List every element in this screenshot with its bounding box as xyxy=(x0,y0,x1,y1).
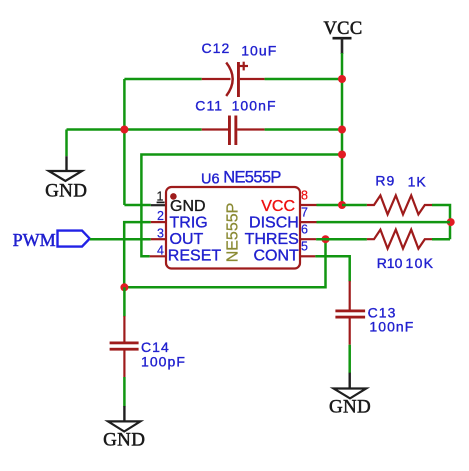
svg-text:THRES: THRES xyxy=(245,231,299,248)
svg-text:100nF: 100nF xyxy=(369,319,414,335)
wire pin1 row xyxy=(124,204,150,207)
junction DISCH xyxy=(447,218,455,226)
junction C11 xyxy=(338,126,346,134)
svg-text:8: 8 xyxy=(301,188,308,202)
wire CONT to C13 xyxy=(315,256,349,281)
svg-text:R9: R9 xyxy=(375,172,395,188)
node PWM flag xyxy=(58,231,90,247)
wire THRES row xyxy=(316,238,367,241)
junction TRIG/C14 xyxy=(120,283,128,291)
svg-text:VCC: VCC xyxy=(324,19,363,39)
svg-text:4: 4 xyxy=(157,243,164,257)
svg-text:10K: 10K xyxy=(406,255,435,271)
svg-text:3: 3 xyxy=(157,226,164,240)
svg-text:100pF: 100pF xyxy=(141,353,186,369)
svg-text:2: 2 xyxy=(157,209,164,223)
wire C11 row right xyxy=(265,128,342,131)
junction VCC/R9 xyxy=(338,201,346,209)
svg-text:7: 7 xyxy=(301,206,308,220)
svg-text:R10: R10 xyxy=(377,255,403,271)
capacitor C13 xyxy=(335,281,365,345)
junction RESET link xyxy=(338,151,346,159)
pin 4 stub xyxy=(150,255,166,257)
wire C14 bottom xyxy=(123,377,126,407)
svg-text:C11: C11 xyxy=(195,98,223,114)
svg-text:DISCH: DISCH xyxy=(249,214,299,231)
pin 5 stub xyxy=(300,255,315,257)
junction C12 xyxy=(338,75,346,83)
svg-text:1K: 1K xyxy=(408,173,427,189)
wire C11 row left xyxy=(67,128,202,131)
svg-text:100nF: 100nF xyxy=(232,98,277,114)
wire VCC to RESET xyxy=(141,155,342,257)
svg-text:NE555P: NE555P xyxy=(223,169,281,187)
svg-text:6: 6 xyxy=(301,223,308,237)
pin 6 stub xyxy=(300,238,316,240)
ground top-left xyxy=(45,156,87,201)
svg-text:C12: C12 xyxy=(202,40,231,56)
junction GND/C11 xyxy=(120,126,128,134)
svg-text:1: 1 xyxy=(157,189,164,203)
svg-text:GND: GND xyxy=(103,429,145,450)
wire C12 row right xyxy=(265,78,342,81)
wire VCC vertical xyxy=(341,53,344,205)
svg-text:PWM: PWM xyxy=(13,230,56,250)
pin 3 stub xyxy=(151,238,166,240)
svg-text:VCC: VCC xyxy=(261,198,295,215)
svg-text:GND: GND xyxy=(45,180,87,201)
wire GND drop top-left xyxy=(65,130,68,157)
svg-text:10uF: 10uF xyxy=(241,42,277,58)
svg-text:GND: GND xyxy=(170,198,206,215)
wire C13 bottom xyxy=(348,345,351,374)
svg-text:TRIG: TRIG xyxy=(170,214,208,231)
svg-text:5: 5 xyxy=(301,240,308,254)
capacitor C14 xyxy=(110,316,139,377)
svg-text:NE555P: NE555P xyxy=(225,203,242,263)
svg-text:U6: U6 xyxy=(201,172,220,188)
pin 8 stub xyxy=(300,204,317,206)
wire TRIG-THRES link xyxy=(124,239,325,287)
wire R10 right xyxy=(432,238,450,241)
pin 1 stub xyxy=(151,204,166,206)
resistor R9 xyxy=(367,195,432,214)
wire TRIG xyxy=(124,222,151,287)
wire DISCH row xyxy=(317,221,451,224)
wire PWM to OUT xyxy=(90,238,151,241)
svg-text:RESET: RESET xyxy=(168,248,222,265)
pin 7 stub xyxy=(300,221,317,223)
svg-text:GND: GND xyxy=(329,397,371,418)
svg-text:OUT: OUT xyxy=(170,231,204,248)
wire GND vertical xyxy=(123,79,126,205)
ground C13 xyxy=(329,373,371,418)
power symbol VCC xyxy=(324,19,363,54)
pin1 indicator dot xyxy=(170,193,177,200)
ground C14 xyxy=(103,406,145,450)
wire R9 left xyxy=(342,204,367,207)
wire C14 top xyxy=(123,287,126,316)
wire pin8 to VCC xyxy=(317,204,343,207)
pin 2 stub xyxy=(151,221,166,223)
junction THRES xyxy=(322,235,330,243)
capacitor C12 xyxy=(202,62,265,97)
wire C12 row left xyxy=(124,78,201,81)
capacitor C11 xyxy=(202,116,265,146)
IC U6 NE555P body xyxy=(166,187,300,269)
resistor R10 xyxy=(367,230,432,249)
wire R9 right xyxy=(432,205,450,239)
svg-text:CONT: CONT xyxy=(253,248,299,265)
